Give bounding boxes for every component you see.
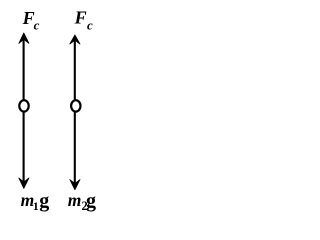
svg-text:g: g bbox=[86, 190, 96, 212]
label m2g right bbox=[68, 190, 96, 213]
svg-text:c: c bbox=[34, 18, 40, 33]
label m1g left bbox=[21, 190, 50, 213]
wire left shaft bbox=[23, 35, 25, 187]
svg-text:c: c bbox=[87, 18, 93, 33]
wire right shaft bbox=[74, 37, 76, 189]
arrowhead left up bbox=[19, 33, 29, 44]
svg-text:1: 1 bbox=[33, 199, 39, 213]
node circle right bbox=[71, 100, 80, 111]
arrowhead right down bbox=[70, 180, 80, 190]
arrowhead right up bbox=[70, 35, 80, 44]
label F_c right bbox=[74, 8, 93, 33]
node circle left bbox=[19, 100, 28, 111]
label F_c left bbox=[22, 8, 40, 33]
svg-text:g: g bbox=[39, 190, 49, 212]
svg-text:F: F bbox=[74, 8, 87, 28]
svg-text:m: m bbox=[68, 190, 82, 210]
arrowhead left down bbox=[19, 178, 29, 189]
